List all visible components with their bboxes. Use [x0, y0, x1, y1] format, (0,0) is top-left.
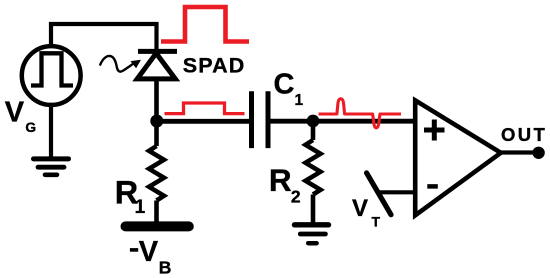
- svg-text:G: G: [25, 120, 36, 135]
- resistor R1: [149, 121, 164, 223]
- wire VG top to SPAD: [51, 24, 157, 51]
- capacitor C1: [252, 91, 269, 148]
- svg-text:SPAD: SPAD: [183, 54, 246, 78]
- red differentiated spike waveform: [319, 99, 402, 128]
- VG pulse glyph: [31, 53, 73, 85]
- wire VG bottom to ground: [49, 105, 53, 158]
- pulse generator VG: [22, 46, 81, 105]
- node A junction dot: [150, 115, 163, 128]
- svg-text:V: V: [139, 236, 159, 268]
- VT threshold source slash: [367, 173, 391, 215]
- svg-text:B: B: [159, 258, 172, 278]
- op-amp comparator U1: [415, 100, 501, 215]
- node B junction dot: [307, 115, 320, 128]
- photon arrow: [100, 56, 141, 72]
- red gate pulse waveform: [161, 7, 249, 42]
- wire node A to C1: [157, 119, 250, 124]
- svg-text:OUT: OUT: [501, 124, 547, 145]
- op-amp - input marking: [427, 184, 438, 189]
- svg-text:C: C: [274, 68, 295, 100]
- resistor R2: [306, 127, 321, 225]
- op-amp + input marking: [424, 120, 445, 141]
- label -VB: [130, 248, 138, 252]
- red gated output pulse waveform: [165, 103, 245, 114]
- wire C1 to op-amp + input: [268, 119, 416, 124]
- svg-text:V: V: [5, 97, 25, 129]
- SPAD diode D1: [137, 51, 177, 79]
- svg-text:2: 2: [291, 187, 301, 207]
- svg-text:T: T: [372, 214, 381, 230]
- svg-text:V: V: [352, 195, 368, 222]
- op-amp output wire: [500, 150, 535, 154]
- -VB supply bar: [126, 221, 189, 231]
- svg-text:1: 1: [135, 197, 146, 218]
- svg-text:R: R: [269, 162, 292, 198]
- wire SPAD to node A: [154, 78, 159, 121]
- svg-text:1: 1: [295, 92, 304, 109]
- output terminal dot: [532, 147, 544, 159]
- ground (R2): [295, 225, 329, 243]
- wire VT to op-amp - input: [377, 190, 416, 194]
- ground (VG): [34, 159, 69, 175]
